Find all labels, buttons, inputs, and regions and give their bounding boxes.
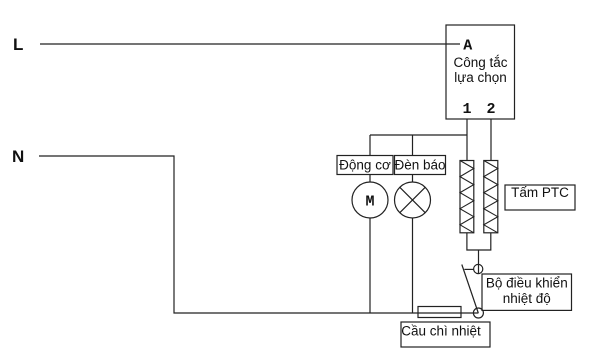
svg-text:L: L — [13, 35, 23, 54]
svg-text:N: N — [12, 147, 24, 166]
svg-text:Đèn báo: Đèn báo — [394, 158, 445, 173]
svg-text:Cầu chì nhiệt: Cầu chì nhiệt — [401, 324, 481, 339]
svg-text:lựa chọn: lựa chọn — [454, 70, 507, 85]
svg-text:2: 2 — [486, 101, 495, 118]
svg-text:A: A — [463, 38, 472, 55]
svg-text:Bộ điều khiển: Bộ điều khiển — [486, 276, 568, 291]
svg-text:Tấm PTC: Tấm PTC — [511, 185, 569, 200]
svg-text:1: 1 — [462, 101, 471, 118]
svg-text:nhiệt độ: nhiệt độ — [503, 291, 551, 306]
svg-text:Động cơ: Động cơ — [339, 158, 391, 173]
svg-text:Công tắc: Công tắc — [453, 55, 507, 70]
svg-text:M: M — [365, 194, 374, 211]
